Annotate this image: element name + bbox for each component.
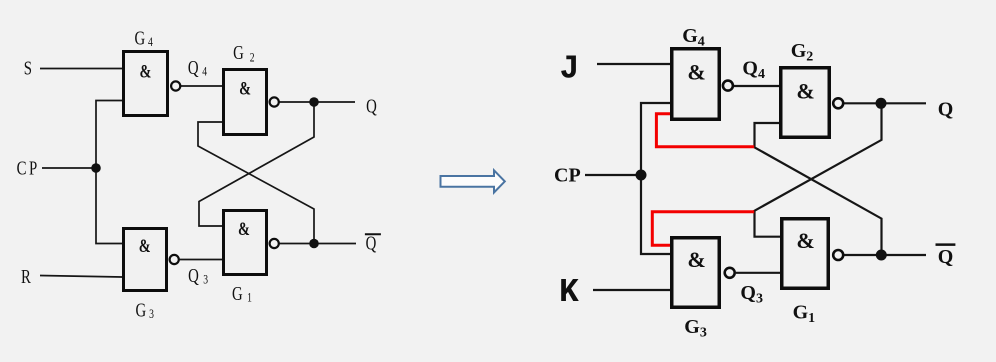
svg-text:CP: CP [17,156,40,179]
svg-text:CP: CP [554,165,581,187]
svg-text:&: & [796,79,814,104]
svg-text:&: & [139,60,151,81]
svg-text:&: & [139,235,151,256]
svg-text:S: S [24,56,32,79]
svg-text:&: & [239,78,251,99]
svg-text:&: & [796,228,814,253]
svg-text:J: J [560,51,580,88]
svg-text:&: & [687,247,705,272]
svg-text:&: & [687,60,705,85]
svg-text:Q: Q [366,94,377,117]
svg-text:&: & [238,218,250,239]
svg-text:Q: Q [938,99,954,121]
svg-text:R: R [21,265,31,288]
svg-text:K: K [559,274,579,311]
svg-text:Q: Q [938,246,954,268]
